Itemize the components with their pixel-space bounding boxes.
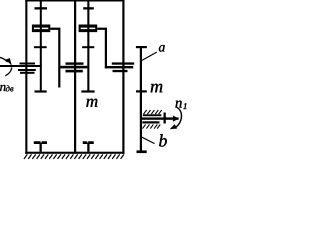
gear z2 on shaft II <box>79 25 98 33</box>
label m right <box>151 84 163 93</box>
input rotation arrow head <box>6 58 12 66</box>
output shaft line <box>140 117 179 119</box>
mesh bars left of shaft I <box>20 63 36 65</box>
nut lower pad line <box>142 121 159 123</box>
shaft III top tick <box>136 46 147 48</box>
screw shaft III <box>140 46 142 152</box>
shaft I bottom end tick <box>35 90 47 92</box>
nut upper pad line <box>143 114 162 116</box>
output rotation arc n1 <box>176 107 182 127</box>
bearing tick on output shaft <box>164 113 166 124</box>
output rotation arrow head <box>170 124 178 129</box>
shaft III bottom tick <box>137 150 147 153</box>
foundation ground line <box>25 152 124 154</box>
nut upper pad hatching <box>144 110 162 114</box>
shaft I top bearing tick <box>35 7 48 9</box>
housing right wall <box>122 0 124 154</box>
label a <box>159 45 165 51</box>
output shaft arrow head <box>173 116 179 122</box>
thrust support under shaft II <box>83 141 94 152</box>
leader line to b <box>142 137 155 143</box>
nut lower pad hatching <box>143 124 161 128</box>
gear z1 on shaft I <box>32 25 50 33</box>
shaft I <box>40 1 42 91</box>
shaft I mid bearing tick <box>34 46 47 48</box>
shaft II bottom end tick <box>81 90 94 92</box>
shaft II top bearing tick <box>83 7 94 9</box>
shaft II mid bearing tick <box>82 46 94 48</box>
thrust support under shaft I <box>34 141 47 152</box>
label n_dv <box>0 85 5 91</box>
shaft III mid tick <box>136 90 147 92</box>
housing top wall <box>25 0 124 2</box>
input rotation arrow: upper diagonal <box>0 57 8 62</box>
sleeve step line from gear z1 <box>50 28 60 88</box>
mesh bars between sleeve I and shaft II <box>66 62 84 64</box>
input shaft line <box>0 65 42 67</box>
housing left wall <box>25 0 27 154</box>
housing middle wall <box>74 0 76 154</box>
foundation hatching <box>24 154 124 159</box>
leader line to a <box>142 52 157 60</box>
sleeve step line from gear z2 <box>97 28 107 69</box>
label m middle <box>86 99 97 107</box>
mesh bars between sleeve II and screw <box>112 62 134 64</box>
shaft II <box>87 1 89 91</box>
label n1 <box>176 101 182 108</box>
input rotation arrow: lower arc <box>5 67 12 75</box>
label b <box>159 134 167 146</box>
